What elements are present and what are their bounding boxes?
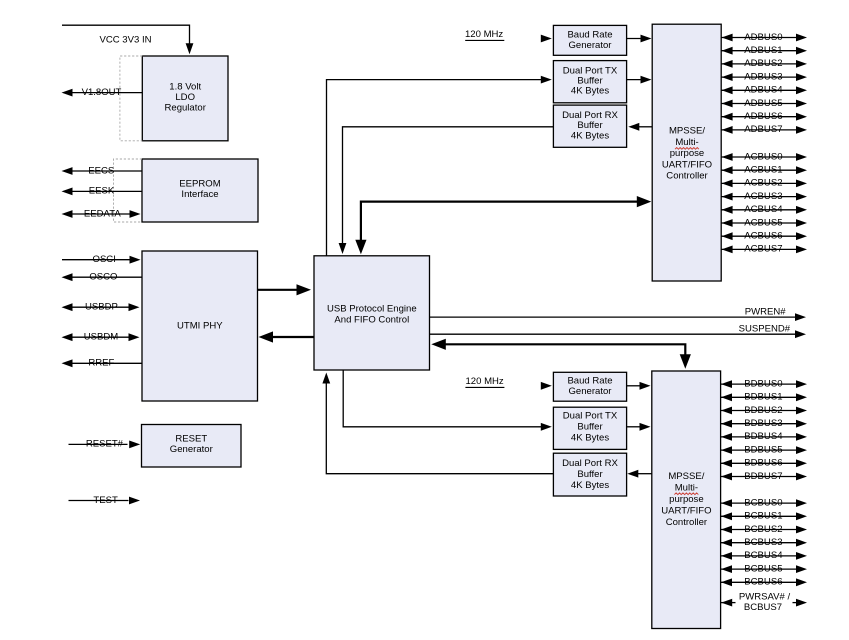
clock arrow into Baud Rate Generator A xyxy=(541,35,552,43)
svg-text:4K Bytes: 4K Bytes xyxy=(571,480,609,491)
block U9: MPSSE/Multi-purpose UART/FIFO Controller A xyxy=(652,24,721,281)
svg-text:Baud Rate: Baud Rate xyxy=(567,29,612,40)
svg-text:RESET#: RESET# xyxy=(86,439,124,450)
wire ACBUS4 bidirectional xyxy=(721,206,807,214)
svg-text:Dual Port RX: Dual Port RX xyxy=(562,458,618,469)
block U13 label xyxy=(661,471,711,528)
wire ADBUS7 bidirectional xyxy=(721,126,807,134)
wire MPSSE A to RX Buffer A xyxy=(628,123,652,131)
wire ADBUS6 bidirectional xyxy=(721,113,807,121)
dashed extension of LDO block xyxy=(120,56,142,141)
svg-text:EESK: EESK xyxy=(89,186,115,197)
svg-text:4K Bytes: 4K Bytes xyxy=(571,130,609,141)
svg-text:EECS: EECS xyxy=(88,165,114,176)
wire OSCI xyxy=(62,256,141,264)
svg-text:Controller: Controller xyxy=(666,517,708,528)
wire USBDM bidirectional xyxy=(62,333,140,341)
net label PWRSAV#/BCBUS7 xyxy=(739,592,791,614)
wire ACBUS5 bidirectional xyxy=(721,219,807,227)
wire V1.8OUT xyxy=(62,89,143,97)
svg-text:Buffer: Buffer xyxy=(577,469,603,480)
svg-text:1.8 Volt: 1.8 Volt xyxy=(169,82,201,93)
block U3: UTMI PHY xyxy=(142,251,258,401)
svg-text:ADBUS5: ADBUS5 xyxy=(744,98,782,109)
block U12: Dual Port RX Buffer B 4K Bytes xyxy=(553,453,626,496)
svg-text:ADBUS4: ADBUS4 xyxy=(744,85,783,96)
wire ADBUS5 bidirectional xyxy=(721,100,807,108)
svg-text:UTMI PHY: UTMI PHY xyxy=(177,321,223,332)
wire USB Protocol Engine to MPSSE B bidirectional xyxy=(431,339,691,369)
svg-text:Multi-: Multi- xyxy=(675,482,698,493)
wire PWRSAV#/BCBUS7 bidirectional xyxy=(721,599,807,607)
clock arrow into Baud Rate Generator B xyxy=(541,382,552,390)
svg-text:BDBUS7: BDBUS7 xyxy=(744,471,782,482)
svg-text:purpose: purpose xyxy=(670,148,705,159)
svg-text:ACBUS3: ACBUS3 xyxy=(744,191,782,202)
block U5: USB Protocol Engine And FIFO Control xyxy=(314,256,430,370)
svg-text:BDBUS5: BDBUS5 xyxy=(744,444,782,455)
svg-text:4K Bytes: 4K Bytes xyxy=(571,86,609,97)
wire USB Protocol Engine to TX Buffer B xyxy=(343,370,552,431)
wire TX Buffer A to MPSSE A xyxy=(627,76,652,84)
svg-text:USB Protocol Engine: USB Protocol Engine xyxy=(327,303,417,314)
wire ACBUS0 bidirectional xyxy=(721,153,807,161)
svg-text:4K Bytes: 4K Bytes xyxy=(571,433,609,444)
svg-text:ACBUS5: ACBUS5 xyxy=(744,217,782,228)
svg-text:BCBUS7: BCBUS7 xyxy=(744,602,782,613)
net label 120 MHz (B) xyxy=(465,376,504,388)
svg-text:ACBUS0: ACBUS0 xyxy=(744,151,782,162)
svg-text:Interface: Interface xyxy=(181,189,218,200)
svg-text:BDBUS2: BDBUS2 xyxy=(744,405,782,416)
svg-text:120 MHz: 120 MHz xyxy=(465,376,503,387)
wire ACBUS7 bidirectional xyxy=(721,246,807,254)
wire UTMI PHY to USB Protocol Engine xyxy=(258,284,312,295)
wire EECS xyxy=(62,167,143,175)
wire EESK xyxy=(62,188,143,196)
svg-text:ADBUS2: ADBUS2 xyxy=(744,58,782,69)
svg-text:USBDM: USBDM xyxy=(84,332,119,343)
wire BCBUS6 bidirectional xyxy=(721,578,807,586)
block U6 label xyxy=(567,29,612,51)
wire BCBUS2 bidirectional xyxy=(721,526,807,534)
wire BDBUS3 bidirectional xyxy=(721,420,807,428)
svg-text:Dual Port TX: Dual Port TX xyxy=(563,410,618,421)
svg-text:Generator: Generator xyxy=(170,444,214,455)
wire BCBUS4 bidirectional xyxy=(721,552,807,560)
block U10: Baud Rate Generator B xyxy=(553,372,626,401)
wire OSCO xyxy=(62,273,143,281)
svg-text:ACBUS1: ACBUS1 xyxy=(744,165,782,176)
svg-text:BDBUS6: BDBUS6 xyxy=(744,458,782,469)
svg-text:MPSSE/: MPSSE/ xyxy=(669,126,705,137)
wire ACBUS1 bidirectional xyxy=(721,166,807,174)
svg-text:ADBUS7: ADBUS7 xyxy=(744,124,782,135)
dashed extension of EEPROM block xyxy=(114,159,143,222)
wire ACBUS3 bidirectional xyxy=(721,193,807,201)
wire BDBUS4 bidirectional xyxy=(721,433,807,441)
svg-text:ADBUS6: ADBUS6 xyxy=(744,111,782,122)
svg-text:LDO: LDO xyxy=(175,92,195,103)
spellcheck squiggle under Multi- (A) xyxy=(675,148,699,150)
svg-text:BCBUS4: BCBUS4 xyxy=(744,550,783,561)
block U11 label xyxy=(563,410,618,443)
svg-text:BCBUS6: BCBUS6 xyxy=(744,577,782,588)
wire ACBUS6 bidirectional xyxy=(721,232,807,240)
svg-text:EEDATA: EEDATA xyxy=(84,208,121,219)
block U2: EEPROM Interface xyxy=(142,159,258,222)
block U8 label xyxy=(562,110,618,141)
wire EEDATA bidirectional xyxy=(62,210,141,218)
block U8: Dual Port RX Buffer A 4K Bytes xyxy=(553,105,626,147)
svg-text:USBDP: USBDP xyxy=(85,302,118,313)
block U9 label xyxy=(662,126,712,182)
wire BCBUS5 bidirectional xyxy=(721,565,807,573)
svg-text:Baud Rate: Baud Rate xyxy=(567,375,612,386)
wire ADBUS1 bidirectional xyxy=(721,47,807,55)
svg-text:purpose: purpose xyxy=(669,494,704,505)
wire Baud Rate Generator B to MPSSE B xyxy=(627,382,651,390)
svg-text:Generator: Generator xyxy=(569,40,613,51)
svg-text:RESET: RESET xyxy=(175,434,207,445)
svg-text:ADBUS3: ADBUS3 xyxy=(744,71,782,82)
spellcheck squiggle under Multi- (B) xyxy=(674,493,698,495)
block U4: RESET Generator xyxy=(142,425,242,468)
wire BDBUS6 bidirectional xyxy=(721,459,807,467)
svg-text:V1.8OUT: V1.8OUT xyxy=(82,87,122,98)
svg-text:BDBUS0: BDBUS0 xyxy=(744,378,782,389)
svg-text:UART/FIFO: UART/FIFO xyxy=(661,505,711,516)
svg-text:BCBUS1: BCBUS1 xyxy=(744,511,782,522)
wire USB Protocol Engine to MPSSE A bidirectional xyxy=(355,196,651,254)
wire TX Buffer B to MPSSE B xyxy=(627,423,651,431)
svg-text:PWREN#: PWREN# xyxy=(745,306,787,317)
wire MPSSE B to RX Buffer B xyxy=(627,470,652,478)
wire BDBUS1 bidirectional xyxy=(721,393,807,401)
svg-text:ADBUS1: ADBUS1 xyxy=(744,45,782,56)
wire USBDP bidirectional xyxy=(62,303,140,311)
svg-text:RREF: RREF xyxy=(88,358,114,369)
svg-text:Regulator: Regulator xyxy=(164,103,206,114)
wire ADBUS3 bidirectional xyxy=(721,73,807,81)
wire RREF xyxy=(62,359,143,367)
wire SUSPEND# output xyxy=(430,330,806,338)
block U11: Dual Port TX Buffer B 4K Bytes xyxy=(553,407,626,449)
svg-text:BCBUS2: BCBUS2 xyxy=(744,524,782,535)
wire TEST xyxy=(69,497,141,505)
svg-text:Buffer: Buffer xyxy=(577,422,603,433)
block U1 label xyxy=(164,82,206,114)
block U6: Baud Rate Generator A xyxy=(553,25,626,55)
svg-text:ACBUS7: ACBUS7 xyxy=(744,244,782,255)
svg-text:OSCO: OSCO xyxy=(89,272,117,283)
svg-text:BCBUS0: BCBUS0 xyxy=(744,497,782,508)
svg-text:ADBUS0: ADBUS0 xyxy=(744,32,782,43)
svg-text:PWRSAV# /: PWRSAV# / xyxy=(739,592,791,603)
svg-text:MPSSE/: MPSSE/ xyxy=(668,471,704,482)
svg-text:BDBUS1: BDBUS1 xyxy=(744,392,782,403)
wire BCBUS1 bidirectional xyxy=(721,512,807,520)
svg-text:Generator: Generator xyxy=(569,386,613,397)
block U7 label xyxy=(563,65,618,96)
block U5 label xyxy=(327,303,417,325)
wire RX Buffer B to USB Protocol Engine xyxy=(322,373,553,474)
block U2 label xyxy=(179,179,220,200)
block U10 label xyxy=(567,375,612,396)
block U13: MPSSE/Multi-purpose UART/FIFO Controller B xyxy=(652,371,721,629)
block U7: Dual Port TX Buffer A 4K Bytes xyxy=(553,61,626,103)
svg-text:BCBUS3: BCBUS3 xyxy=(744,537,782,548)
wire ADBUS0 bidirectional xyxy=(721,34,807,42)
svg-text:OSCI: OSCI xyxy=(93,254,116,265)
svg-text:BDBUS4: BDBUS4 xyxy=(744,431,783,442)
svg-text:BDBUS3: BDBUS3 xyxy=(744,418,782,429)
wire Baud Rate Generator A to MPSSE A xyxy=(627,35,652,43)
wire ADBUS4 bidirectional xyxy=(721,86,807,94)
svg-text:VCC 3V3 IN: VCC 3V3 IN xyxy=(100,35,152,46)
block U1: 1.8 Volt LDO Regulator xyxy=(142,56,228,141)
block U4 label xyxy=(170,434,214,455)
svg-text:BCBUS5: BCBUS5 xyxy=(744,563,782,574)
wire USB Protocol Engine to UTMI PHY xyxy=(259,331,315,342)
wire ADBUS2 bidirectional xyxy=(721,60,807,68)
wire BDBUS0 bidirectional xyxy=(721,380,807,388)
svg-text:ACBUS4: ACBUS4 xyxy=(744,204,783,215)
wire VCC 3V3 IN into LDO xyxy=(62,25,193,54)
wire BCBUS3 bidirectional xyxy=(721,539,807,547)
svg-text:SUSPEND#: SUSPEND# xyxy=(739,324,791,335)
svg-text:Multi-: Multi- xyxy=(675,137,698,148)
wire BDBUS2 bidirectional xyxy=(721,407,807,415)
wire ACBUS2 bidirectional xyxy=(721,180,807,188)
wire RESET# xyxy=(69,441,141,449)
block U12 label xyxy=(562,458,618,491)
svg-text:ACBUS2: ACBUS2 xyxy=(744,178,782,189)
svg-text:Controller: Controller xyxy=(666,171,708,182)
svg-text:TEST: TEST xyxy=(93,495,118,506)
net label 120 MHz (A) xyxy=(465,29,504,41)
wire BDBUS5 bidirectional xyxy=(721,446,807,454)
svg-text:120 MHz: 120 MHz xyxy=(465,29,503,40)
wire BDBUS7 bidirectional xyxy=(721,473,807,481)
wire PWREN# output xyxy=(430,313,806,321)
wire USB Protocol Engine to TX Buffer A xyxy=(327,76,552,256)
wire BCBUS0 bidirectional xyxy=(721,499,807,507)
wire RX Buffer A to USB Protocol Engine xyxy=(339,127,554,254)
svg-text:And FIFO Control: And FIFO Control xyxy=(334,314,409,325)
svg-text:UART/FIFO: UART/FIFO xyxy=(662,159,712,170)
svg-text:ACBUS6: ACBUS6 xyxy=(744,231,782,242)
